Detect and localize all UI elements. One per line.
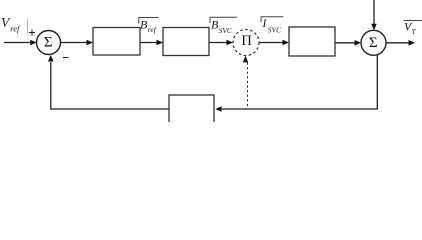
svg-text:SVC: SVC xyxy=(219,26,233,35)
svg-text:SVC: SVC xyxy=(268,25,282,34)
svg-text:Σ: Σ xyxy=(369,35,378,51)
wire block G1 to block G2 xyxy=(140,40,163,46)
wire dashed measured-voltage input into multiplier P1 xyxy=(243,56,248,109)
node VT label with overbar xyxy=(404,20,422,37)
svg-text:ref: ref xyxy=(10,23,21,33)
block G1 regulator xyxy=(93,28,140,56)
wire output arrow VT xyxy=(386,40,415,46)
svg-text:Π: Π xyxy=(241,33,252,49)
wire multiplier P1 to block G3 with Isvc label xyxy=(259,40,289,46)
wire feedback from summer S2 down and left into block G4 xyxy=(215,55,377,112)
block G4 measuring filter xyxy=(169,95,214,126)
node Bref label with overbar xyxy=(139,18,159,35)
summer S1 (sigma) xyxy=(37,31,61,55)
wire feedback from block G4 left and up into summer S1 xyxy=(48,55,169,109)
svg-text:B: B xyxy=(140,18,148,32)
node plus sign at summer S1 input xyxy=(29,30,35,36)
svg-text:Σ: Σ xyxy=(44,34,53,50)
wire block G3 to summer S2 xyxy=(335,40,361,46)
node Isvc label with overbar xyxy=(261,17,283,35)
node minus sign at summer S1 feedback input xyxy=(63,57,69,59)
wire top input arrow into summer S2 xyxy=(371,0,377,30)
node Vref label xyxy=(1,15,21,34)
multiplier P1 (pi, dashed) xyxy=(233,30,259,56)
summer S2 (sigma) xyxy=(361,30,386,55)
wire Vref input arrow into summer S1 xyxy=(4,40,37,46)
wire vertical tick after Vref xyxy=(27,19,29,35)
block G2 thyristor susceptance xyxy=(163,28,209,56)
block G3 network reactance xyxy=(289,27,335,56)
node Bsvc label with overbar xyxy=(210,17,237,35)
wire block G2 to multiplier P1 xyxy=(209,40,233,46)
wire summer S1 to block G1 xyxy=(61,40,94,46)
svg-text:ref: ref xyxy=(148,25,157,34)
